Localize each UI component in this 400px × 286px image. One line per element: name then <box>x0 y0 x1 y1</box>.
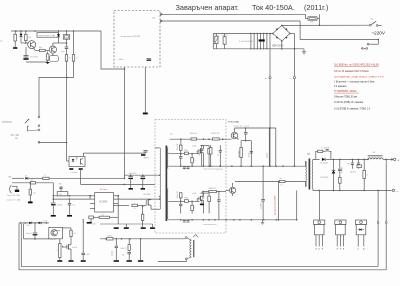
wire fb2 <box>53 198 90 200</box>
switch terminal 4 <box>38 141 40 143</box>
ground top right bl <box>87 222 92 224</box>
svg-text:1W по 43 навивки ПЕЛ 0.5/2мм: 1W по 43 навивки ПЕЛ 0.5/2мм <box>334 70 369 73</box>
bulk capacitor bank <box>250 34 252 49</box>
wire uc bottom rail <box>100 223 153 225</box>
out resistor R <box>363 159 365 170</box>
wire bridge right stub <box>290 33 294 35</box>
wire plus rail down <box>269 34 271 167</box>
wire snub left <box>277 182 279 220</box>
zener D2 <box>58 31 60 43</box>
TR1 secondary bottom <box>167 189 170 220</box>
svg-text:47,0x25V: 47,0x25V <box>30 57 39 59</box>
wire 24v feed A <box>160 13 306 15</box>
cap 4n7 <box>262 166 264 199</box>
svg-text:Тр1 Е65/Чш. тр Х2000 4РЗ 25/: Тр1 Е65/Чш. тр Х2000 4РЗ 25/2 4.6L08 <box>334 63 379 66</box>
resistor MB <box>209 190 217 192</box>
wire Q1 emitter <box>34 48 36 51</box>
svg-text:Чист звук: Чист звук <box>11 134 19 136</box>
mosfet gd <box>200 196 202 201</box>
U1 left pins <box>90 195 95 197</box>
svg-text:–: – <box>290 77 292 80</box>
wire fuse to switch <box>317 18 319 20</box>
ground bl1 <box>59 258 61 260</box>
svg-text:Обмотан ПЭВ1,00 мм: Обмотан ПЭВ1,00 мм <box>334 97 358 99</box>
svg-text:Заваръчен апарат.: Заваръчен апарат. <box>176 3 239 12</box>
cap aux1 <box>115 239 117 246</box>
wire bridge bottom stub <box>281 41 283 49</box>
wire TR1 prim top <box>155 147 160 149</box>
svg-text:(плавно рег. на тока): (плавно рег. на тока) <box>234 126 250 128</box>
wire box pin down right <box>144 67 146 112</box>
svg-text:470х4,7W: 470х4,7W <box>177 191 179 198</box>
svg-text:UC3845: UC3845 <box>99 201 108 203</box>
wire R6 down <box>73 61 75 77</box>
svg-text:13 W=4х [ПЭВ]·12" навивки: 13 W=4х [ПЭВ]·12" навивки <box>334 102 364 104</box>
wire out tap down A <box>377 190 379 221</box>
snubber out wires <box>316 151 318 159</box>
output plus arrow <box>390 158 393 160</box>
resistor aux <box>107 238 113 240</box>
resistor gd3 <box>208 196 211 201</box>
diode gd <box>185 200 189 203</box>
ground bl2 <box>70 249 72 260</box>
svg-text:Б: Б <box>340 248 342 250</box>
switch terminal 2 <box>38 125 40 127</box>
svg-text:2к: 2к <box>69 58 71 60</box>
svg-text:R: R <box>367 174 369 176</box>
svg-text:0 3 навивки: 0 3 навивки <box>334 86 347 88</box>
wire drive drop <box>180 139 182 145</box>
resistor gd3 <box>208 149 211 154</box>
transistor box Q6 <box>49 227 63 238</box>
svg-text:с замасяване към радиатора: с замасяване към радиатора <box>203 168 223 170</box>
svg-text:10Е/630В: 10Е/630В <box>238 151 240 158</box>
resistor R4 <box>46 54 49 60</box>
svg-text:Тv1: Тv1 <box>170 133 174 135</box>
wire L1 out <box>383 158 390 160</box>
svg-text:относ: относ <box>61 51 65 53</box>
resistor R3 <box>39 49 45 51</box>
wire relay join <box>59 42 67 44</box>
svg-text:5,1к: 5,1к <box>33 192 36 194</box>
svg-text:A: A <box>363 247 365 250</box>
TR2 core <box>308 159 310 190</box>
out cap 100n b <box>357 159 359 162</box>
U1 right pins <box>114 195 119 197</box>
svg-text:4н7/400В: 4н7/400В <box>260 203 262 209</box>
wire aux3 <box>140 239 142 260</box>
TO-220 package D pack <box>355 220 366 225</box>
svg-text:–: – <box>396 189 398 193</box>
svg-text:КС осц: КС осц <box>100 189 108 191</box>
wire pin1 <box>12 177 24 179</box>
wire loop inner <box>21 223 378 266</box>
transistor Q2 <box>49 46 56 53</box>
switch terminal 3 <box>38 129 40 131</box>
snubber C <box>250 151 253 153</box>
svg-text:10к: 10к <box>28 37 31 39</box>
wire under IC <box>93 216 99 218</box>
resistor R5 2k <box>65 55 67 62</box>
wire AC vertical <box>299 21 301 40</box>
wire snub right <box>296 191 298 220</box>
wire mosfet bl <box>70 237 72 245</box>
wire switched AC <box>282 24 370 26</box>
rail DC plus <box>213 33 272 35</box>
svg-text:100н/63в: 100н/63в <box>350 172 356 174</box>
power supply dashed box <box>114 11 160 68</box>
ground bar under pin <box>143 113 148 115</box>
svg-text:Тг1: Тг1 <box>280 185 283 187</box>
svg-text:60': 60' <box>15 138 18 140</box>
terminal +310V <box>269 77 271 79</box>
plug earth pin <box>366 48 368 50</box>
switch terminal 1 <box>38 116 40 118</box>
wire Q2 collector <box>52 43 54 47</box>
svg-text:к7340: к7340 <box>192 146 196 148</box>
wire gd mosfet <box>197 151 199 154</box>
svg-text:Б: Б <box>319 248 321 250</box>
ground sym mid <box>262 220 264 223</box>
wire collector drop <box>275 128 277 166</box>
svg-text:к7340: к7340 <box>192 193 196 195</box>
wire out tap down B <box>385 159 387 221</box>
svg-text:8000 Ом: 8000 Ом <box>190 133 198 135</box>
wire delay to switch <box>39 78 74 117</box>
output cap 4700 <box>339 159 341 168</box>
sense resistor <box>142 206 144 214</box>
U1 right pin down <box>117 196 119 224</box>
transistor Q4 driver top <box>231 132 238 139</box>
wire node base Q1 <box>21 42 29 44</box>
wire bus to box <box>101 31 124 69</box>
resistor 8000 Ohm <box>191 138 197 140</box>
svg-text:1,5к: 1,5к <box>101 214 104 216</box>
svg-text:3 х 470uF/400V: 3 х 470uF/400V <box>239 41 254 43</box>
wire node to primary <box>159 174 161 176</box>
cap gd <box>179 156 182 158</box>
cap near transformer <box>143 150 147 152</box>
wire mosfet source <box>150 205 152 209</box>
ct core <box>193 240 195 257</box>
resistor bl vert <box>59 239 61 244</box>
svg-text:МВБ 74 W: МВБ 74 W <box>209 188 217 190</box>
wire fb1 <box>53 195 90 197</box>
svg-text:"Грейване": "Грейване" <box>2 121 13 124</box>
connector ZM2 bracket <box>10 185 12 193</box>
clamp diode col <box>268 128 270 166</box>
bridge rectifier KBPC5010 <box>273 25 290 41</box>
opto led <box>72 159 75 161</box>
ground blob pin3 <box>15 190 19 192</box>
relay K1 box <box>63 35 69 40</box>
svg-text:(2011г.): (2011г.) <box>304 3 328 12</box>
svg-text:демпферна верига 100R: демпферна верига 100R <box>274 195 277 215</box>
snubber out R <box>318 150 323 152</box>
svg-text:4700мкФ: 4700мкФ <box>340 166 343 173</box>
svg-text:G: G <box>336 248 338 250</box>
TR1 core <box>165 146 167 222</box>
wire aux rail <box>100 238 185 240</box>
svg-text:+ Акб: + Акб <box>118 58 124 61</box>
resistor gate 10R <box>132 204 138 206</box>
small box out <box>357 165 362 168</box>
svg-text:100н: 100н <box>199 152 201 156</box>
ground fill R4 <box>45 62 50 64</box>
svg-text:1к: 1к <box>57 250 59 252</box>
output minus arrow <box>389 189 391 191</box>
wire AC neutral <box>300 39 378 41</box>
box under Q2 <box>50 56 59 62</box>
wire ct return <box>158 260 186 262</box>
chassis ground <box>303 49 305 52</box>
arrow marks box out <box>160 13 163 14</box>
TR2 secondary winding <box>311 160 314 188</box>
cap aux2 <box>127 251 131 253</box>
cap C12 electrolytic <box>142 175 144 176</box>
svg-text:1 Вторична — изолация: 1 Вторична — изолация хартия 0.5мм <box>334 81 375 83</box>
cap mid <box>218 192 220 200</box>
svg-text:47м9ф: 47м9ф <box>57 203 63 206</box>
resistor gd1 <box>179 145 182 150</box>
svg-text:E: E <box>322 248 324 250</box>
wire gd feed <box>168 200 199 202</box>
svg-text:Закъснение 3 сек: Закъснение 3 сек <box>38 35 54 37</box>
svg-text:470х4,7W: 470х4,7W <box>177 143 179 150</box>
svg-text:2 х 10R/2W: 2 х 10R/2W <box>321 147 330 149</box>
svg-text:4,7: 4,7 <box>214 34 216 36</box>
wire bl to uc <box>82 219 84 223</box>
svg-text:АОК: АОК <box>92 222 95 225</box>
svg-text:+: + <box>397 158 399 162</box>
wire TR2 sec bot <box>313 188 316 190</box>
svg-text:НВ: НВ <box>59 183 62 185</box>
switch lever <box>25 119 29 123</box>
mosfet bl <box>67 244 69 249</box>
cap bl 100uF <box>34 223 36 233</box>
caps on bus bottom <box>183 220 186 222</box>
svg-text:с замасяване към р.: с замасяване към р. <box>203 224 218 226</box>
out cap 100n a <box>351 159 353 162</box>
wire gate <box>62 246 64 247</box>
wire TR2 sec top <box>313 158 320 161</box>
svg-text:2к: 2к <box>76 58 78 60</box>
current transformer rings <box>185 237 187 239</box>
resistor gd2 <box>191 205 194 210</box>
opto transistor <box>80 159 82 165</box>
resistor 150k 2W <box>223 37 226 44</box>
diode gd <box>185 152 189 155</box>
resistor R6 2k <box>72 55 74 62</box>
ground C11 <box>129 188 133 190</box>
snubber R <box>240 147 242 157</box>
svg-text:24v: 24v <box>152 17 156 19</box>
bus mid upper <box>168 165 302 167</box>
terminal -310V <box>293 77 295 79</box>
wire mosfet drain <box>150 198 152 201</box>
svg-text:1н5: 1н5 <box>218 154 220 157</box>
snubber box <box>241 140 251 142</box>
svg-text:ГТ 820/55/50, 4200м: ГТ 820/55/50, 4200м <box>334 90 357 93</box>
ground bars mid <box>200 204 204 206</box>
diode bl1 <box>29 222 32 225</box>
transformer TR1 primary winding <box>159 148 162 209</box>
wire opto out right <box>84 153 143 156</box>
wire TR2 prim top <box>302 161 305 166</box>
svg-text:Тр2 ЕТД/59 06К +1.8кВ1 (3.08: Тр2 ЕТД/59 06К +1.8кВ1 (3.08) 0с тр.НВтп… <box>334 76 384 78</box>
wire bottom delay <box>26 61 48 63</box>
svg-text:ИР1М06: ИР1М06 <box>143 194 150 196</box>
svg-text:C: C <box>357 248 359 250</box>
opto pins ground <box>69 168 73 170</box>
ground bar under R1 <box>13 47 17 49</box>
wire opto drive <box>170 138 232 140</box>
transistor Q1 <box>28 41 36 49</box>
output diode D10 <box>322 158 325 161</box>
svg-text:4х4148: 4х4148 <box>267 153 269 158</box>
thermistor RT1 <box>212 34 214 49</box>
zener D1 <box>20 31 22 43</box>
wire box pin down left <box>123 67 125 178</box>
wire pin3 <box>12 185 17 187</box>
svg-text:10: 10 <box>134 208 136 210</box>
fuse F1 5A <box>306 14 308 18</box>
svg-text:КВРС5010: КВРС5010 <box>272 45 284 47</box>
svg-text:1А: 1А <box>25 175 28 178</box>
delay label box <box>37 33 59 38</box>
wire opto in <box>67 160 70 162</box>
comp 10n bottom <box>89 216 94 219</box>
wire R5 down to opto <box>66 61 68 161</box>
svg-text:захранване ДЗУЧИ: захранване ДЗУЧИ <box>121 36 141 38</box>
svg-text:G: G <box>315 248 317 250</box>
cap cl <box>245 128 247 132</box>
wire neutral drop <box>377 40 379 45</box>
wire node rail <box>124 174 159 176</box>
diode D3 1A <box>25 177 28 180</box>
svg-text:вс547: вс547 <box>43 220 47 222</box>
L1 core bar <box>368 155 383 157</box>
wire 27k <box>235 181 279 183</box>
svg-text:ЗМ2: ЗМ2 <box>8 176 12 178</box>
cap sn1 <box>201 145 203 149</box>
resistor R1 <box>14 31 16 34</box>
ground 10n cap <box>67 215 72 217</box>
svg-text:+: + <box>265 77 267 80</box>
wire TR2 prim bot <box>302 182 305 187</box>
caret mark dashed box <box>193 235 198 238</box>
svg-text:[к]: [к] <box>123 254 125 256</box>
wire top-left supply bus <box>11 30 101 32</box>
wire gd mosfet <box>197 199 199 202</box>
svg-text:27к: 27к <box>280 178 283 180</box>
wire Q2 emitter down <box>52 53 54 55</box>
terminal ring B <box>385 222 387 224</box>
current transformer winding <box>187 238 191 240</box>
svg-text:100мкФ: 100мкФ <box>26 232 32 235</box>
svg-text:вс547В: вс547В <box>72 247 77 249</box>
svg-text:R: R <box>194 208 196 210</box>
cap 47uF <box>51 202 56 204</box>
wire heatsink drop <box>318 190 320 219</box>
svg-text:ти834С: ти834С <box>107 235 113 237</box>
wire 24v feed B <box>160 20 300 22</box>
capacitor C1 47.0x25V <box>25 47 27 55</box>
cap 10n <box>69 200 71 203</box>
svg-text:Вкл: Вкл <box>371 19 374 21</box>
resistor R2 10k <box>25 34 28 40</box>
svg-text:Само 140+ 80А: Само 140+ 80А <box>7 194 21 197</box>
wire bl bus <box>25 222 48 224</box>
terminal ring A <box>377 222 379 224</box>
svg-text:РС817(ВА): РС817(ВА) <box>228 120 239 123</box>
wire fb vertical <box>52 183 54 203</box>
capacitor C2 <box>65 46 69 48</box>
svg-text:25CPQ035: 25CPQ035 <box>320 177 328 179</box>
svg-text:ВС857-2Я: ВС857-2Я <box>211 133 220 135</box>
ground bars aux <box>114 260 119 262</box>
wire opto down to vcc rail <box>80 168 82 184</box>
switch wiper stub <box>27 126 29 131</box>
IC U1 UC3845 box <box>95 193 114 213</box>
terminal rings bl <box>20 222 22 224</box>
svg-text:5А: 5А <box>310 21 313 24</box>
svg-text:10: 10 <box>1 40 3 42</box>
svg-text:10н: 10н <box>72 205 75 207</box>
wire TR1 prim bottom <box>151 208 160 210</box>
rail DC minus <box>213 48 304 50</box>
wire bl node <box>24 238 56 240</box>
svg-text:Ток 40-150А.: Ток 40-150А. <box>252 3 295 12</box>
diode bl2 <box>39 222 42 225</box>
svg-text:ИР06: ИР06 <box>184 198 188 200</box>
wire pin1 on <box>49 177 124 179</box>
svg-text:МБ010: МБ010 <box>144 158 149 160</box>
svg-text:150к 2W: 150к 2W <box>222 35 229 37</box>
svg-text:Само 1 Т4 - 80А: Само 1 Т4 - 80А <box>7 199 21 202</box>
mosfet gd <box>200 148 202 153</box>
resistor aux2 <box>128 239 130 245</box>
TR2 primary winding <box>305 161 308 187</box>
resistor OB box <box>57 192 68 196</box>
svg-text:25CPQ035: 25CPQ035 <box>320 163 328 165</box>
svg-text:ИР06: ИР06 <box>184 150 188 152</box>
freewheel diode D11 <box>333 159 335 170</box>
ground bar C1 <box>23 58 28 60</box>
svg-text:R: R <box>194 160 196 162</box>
optocoupler U2 box <box>69 157 85 167</box>
svg-text:14В+С2С: 14В+С2С <box>120 248 127 250</box>
switch S1 <box>369 24 371 26</box>
svg-text:14 Ш [ПЭВ] Ж навивки ( ПЭВ: 14 Ш [ПЭВ] Ж навивки ( ПЭВ1 1.0 <box>334 108 371 110</box>
mosfet driver Q3 <box>147 199 149 205</box>
wire out bottom rail <box>316 189 389 191</box>
resistor gd1 <box>179 193 182 198</box>
resistor 10k pin2 <box>30 182 35 184</box>
wire minus rail down <box>293 34 295 167</box>
cap sn3 <box>219 145 221 150</box>
svg-text:оптотр.: оптотр. <box>112 250 114 256</box>
cap C11 electrolytic <box>130 175 132 176</box>
resistor BC857 <box>212 138 219 140</box>
svg-text:10к: 10к <box>73 233 76 235</box>
wire collector rail <box>235 127 276 129</box>
caps on bus top <box>183 166 186 168</box>
svg-text:E: E <box>343 248 345 250</box>
svg-text:10к: 10к <box>31 179 34 181</box>
svg-text:С005: С005 <box>86 254 90 256</box>
ground bars under IC area <box>114 227 119 229</box>
